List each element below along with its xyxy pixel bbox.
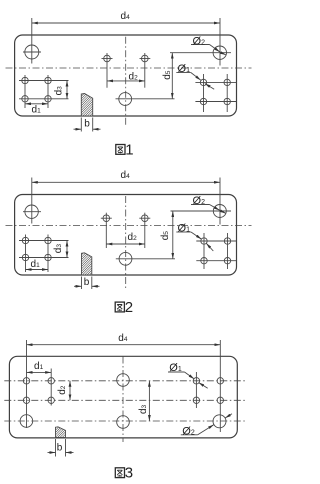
label Ø1 leader fig2 [176, 232, 213, 251]
caption 图1 [116, 141, 134, 158]
dimension d2 fig2 [106, 243, 145, 245]
svg-text:d5: d5 [160, 231, 171, 241]
label Ø2 leader fig2 [191, 205, 226, 214]
svg-text:d4: d4 [118, 333, 128, 344]
horizontal centerline fig2 [6, 225, 252, 227]
label Ø2 leader fig3 [181, 414, 232, 435]
dimension d4 fig3 [27, 340, 221, 432]
caption 图2 [115, 299, 133, 316]
svg-text:d2: d2 [57, 385, 68, 395]
corner hole top-left fig1 [23, 45, 41, 59]
label Ø1 leader fig1 [176, 73, 214, 90]
dimension d3 fig1 [66, 81, 68, 99]
plate outline fig1 [15, 35, 237, 116]
svg-text:d1: d1 [34, 361, 44, 372]
dimension b fig2 [74, 277, 100, 290]
dimension d5 fig2 [171, 211, 212, 259]
svg-text:d2: d2 [129, 72, 139, 83]
svg-text:d3: d3 [138, 404, 149, 414]
corner hole top-right fig2 (Ø2) [211, 205, 231, 218]
dimension d4 fig2 [32, 178, 220, 225]
svg-text:Ø1: Ø1 [169, 362, 182, 374]
center hole top fig3 [117, 374, 130, 387]
corner hole bottom-left fig3 [20, 415, 33, 428]
corner hole top-left fig2 [23, 205, 41, 218]
right hole group 2x2 fig3 [193, 372, 223, 408]
texts fig1 [32, 11, 206, 130]
corner hole top-right fig1 (Ø2) [211, 46, 231, 59]
left hole group 2x2 fig1 [19, 75, 69, 108]
center hole pair fig1 [102, 53, 151, 88]
vertical centerline fig1 [125, 37, 127, 127]
label Ø2 leader fig1 [191, 45, 226, 55]
svg-text:d4: d4 [121, 170, 131, 181]
dimension d2 fig3 [69, 381, 71, 401]
blade (hatched) fig3 [56, 427, 66, 438]
vertical centerline fig3 [122, 357, 124, 443]
plate outline fig3 [9, 356, 237, 438]
svg-text:d1: d1 [32, 105, 42, 116]
svg-text:d1: d1 [31, 259, 41, 270]
svg-text:Ø2: Ø2 [193, 195, 206, 207]
svg-text:Ø2: Ø2 [182, 425, 195, 437]
dimension d1 fig3 [27, 371, 52, 373]
vertical centerline fig2 [125, 196, 127, 288]
svg-text:1: 1 [125, 141, 133, 158]
right hole group 2x2 fig2 [196, 233, 236, 269]
svg-text:b: b [84, 277, 90, 288]
dimension d1 fig2 [26, 269, 49, 271]
right hole group 2x2 fig1 [195, 74, 236, 112]
svg-text:d4: d4 [121, 11, 131, 22]
dimension d1 fig1 [25, 103, 48, 105]
dimension d4 fig1 [32, 18, 220, 66]
center hole fig2 [116, 252, 175, 265]
dimension d2 fig1 [107, 80, 145, 82]
svg-text:b: b [57, 443, 63, 454]
dimension b fig3 [48, 439, 74, 457]
blade (hatched) fig2 [82, 253, 92, 275]
dimension d3 fig2 [66, 241, 68, 258]
svg-text:d5: d5 [162, 70, 173, 80]
centerline row R2 fig3 [4, 399, 246, 401]
svg-text:Ø2: Ø2 [193, 35, 206, 47]
svg-text:3: 3 [125, 465, 133, 482]
svg-text:d2: d2 [128, 232, 138, 243]
dimension d5 fig1 [170, 53, 211, 99]
center hole pair fig2 [101, 213, 151, 248]
left hole group 2x2 fig2 [19, 235, 69, 273]
svg-text:Ø1: Ø1 [178, 63, 191, 75]
texts fig2 [31, 170, 206, 288]
label Ø1 leader fig3 [168, 372, 208, 388]
plate outline fig2 [15, 195, 237, 276]
caption 图3 [115, 465, 133, 482]
centerline row R3 fig3 [4, 420, 246, 422]
svg-text:d3: d3 [53, 244, 64, 254]
svg-text:Ø1: Ø1 [178, 223, 191, 235]
center hole bottom fig3 [117, 416, 130, 429]
texts fig3 [34, 333, 195, 453]
blade (hatched) fig1 [81, 94, 92, 117]
left hole group 2x2 fig3 [23, 369, 54, 406]
dimension d3 fig3 [148, 381, 150, 421]
corner hole bottom-right fig3 (Ø2) [213, 415, 226, 428]
dimension b fig1 [74, 118, 101, 132]
svg-text:b: b [84, 118, 90, 129]
svg-text:d3: d3 [54, 86, 65, 96]
centerline row R1 fig3 [4, 380, 246, 382]
horizontal centerline fig1 [6, 67, 252, 69]
center hole fig1 [116, 93, 175, 106]
svg-text:2: 2 [125, 299, 133, 316]
